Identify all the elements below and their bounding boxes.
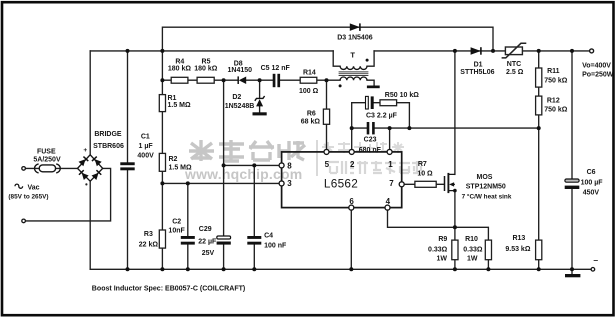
- svg-text:C5 12 nF: C5 12 nF: [261, 65, 291, 72]
- svg-text:25V: 25V: [202, 250, 215, 257]
- wire pin4 to sense resistors: [388, 210, 489, 240]
- svg-text:180 kΩ: 180 kΩ: [168, 65, 192, 72]
- svg-text:180 kΩ: 180 kΩ: [194, 65, 218, 72]
- svg-text:1 µF: 1 µF: [139, 143, 154, 150]
- resistor R5: [197, 77, 214, 83]
- transformer T primary winding: [340, 66, 367, 69]
- bridge minus dot: [85, 183, 87, 185]
- ground bar bottom right: [565, 274, 580, 277]
- output terminal plus: [590, 49, 594, 53]
- svg-text:R10: R10: [465, 236, 478, 243]
- node gnd C1: [126, 267, 130, 271]
- svg-text:750 kΩ: 750 kΩ: [544, 77, 568, 84]
- capacitor C29 polarized: [217, 236, 231, 245]
- svg-text:BRIDGE: BRIDGE: [94, 131, 122, 138]
- svg-text:22 µF: 22 µF: [198, 238, 217, 245]
- wire AC line2: bridge right loop to terminal 2: [25, 168, 110, 221]
- wire pin6 ground: [350, 210, 352, 269]
- bridge diode top-right: [92, 157, 102, 167]
- svg-text:R11: R11: [547, 68, 560, 75]
- svg-text:1W: 1W: [437, 256, 448, 263]
- pin 3: [279, 181, 284, 186]
- node ZCD tap: [325, 78, 329, 82]
- wire top rail with D3 bypass: [162, 27, 493, 51]
- svg-text:7: 7: [389, 179, 394, 188]
- svg-text:2: 2: [350, 160, 355, 169]
- node Vcc-pin8: [222, 163, 226, 167]
- node D2 tap: [258, 78, 262, 82]
- svg-text:2.5 Ω: 2.5 Ω: [506, 69, 524, 76]
- node R4 tap: [160, 78, 164, 82]
- ground bar under D2: [253, 112, 267, 115]
- node gnd R10: [486, 267, 490, 271]
- svg-text:5A/250V: 5A/250V: [33, 157, 61, 164]
- svg-text:C6: C6: [587, 169, 596, 176]
- node gnd C4: [252, 267, 256, 271]
- node inv-pin1: [388, 126, 392, 130]
- wire Vcc vertical from D8 junction through C29 to ground: [223, 80, 225, 269]
- wire R9 verticals: [454, 227, 456, 269]
- pin 4: [385, 205, 390, 210]
- node gnd R9: [453, 267, 457, 271]
- node C1-top: [126, 49, 130, 53]
- AC terminal 2: [22, 219, 26, 223]
- transistor Q1 MOS STP12NM50: [445, 173, 455, 193]
- wire transformer primary riser right: [367, 51, 374, 66]
- phase dot primary: [366, 59, 369, 62]
- svg-text:100 Ω: 100 Ω: [299, 88, 319, 95]
- junction dots top rails: [126, 49, 575, 271]
- wire R11 R12 divider: [538, 51, 540, 128]
- svg-text:Vac: Vac: [28, 185, 40, 192]
- capacitor C4: [247, 236, 261, 245]
- svg-text:R12: R12: [547, 97, 560, 104]
- svg-text:NTC: NTC: [507, 61, 521, 68]
- node gnd pin6: [349, 267, 353, 271]
- MOS body-source junction dot: [453, 189, 457, 193]
- svg-text:1.5 MΩ: 1.5 MΩ: [168, 102, 192, 109]
- svg-text:100 nF: 100 nF: [264, 242, 287, 249]
- resistor R6: [323, 109, 329, 124]
- svg-text:R13: R13: [512, 235, 525, 242]
- svg-text:R14: R14: [303, 70, 316, 77]
- pin 5: [324, 149, 329, 154]
- pin 2: [349, 149, 354, 154]
- ground bar under secondary: [367, 86, 380, 89]
- svg-text:MOS: MOS: [477, 174, 493, 181]
- wire R6 branch to pin5: [326, 80, 328, 149]
- op-amp U1 L6562 box: [282, 152, 402, 208]
- wire D2 branch vertical: [259, 80, 261, 112]
- wire ground stub bottom right: [571, 269, 573, 274]
- wire Vcc to pin8: [224, 164, 279, 166]
- node R2R3-pin3: [160, 181, 164, 185]
- wire secondary right to ground: [367, 80, 374, 85]
- pin 7: [399, 182, 404, 187]
- svg-text:750 kΩ: 750 kΩ: [544, 106, 568, 113]
- wire R10 bottom: [487, 260, 489, 270]
- wire divider to pin3: [162, 182, 279, 184]
- wire bridge top to rail: [89, 51, 91, 155]
- svg-text:680 nF: 680 nF: [359, 147, 382, 154]
- svg-text:R9: R9: [438, 236, 447, 243]
- output terminal minus: [591, 268, 595, 272]
- resistor R11: [536, 68, 542, 87]
- bridge diode bottom-right: [92, 170, 102, 180]
- svg-text:C23: C23: [364, 137, 377, 144]
- svg-text:C1: C1: [141, 134, 150, 141]
- svg-text:1W: 1W: [467, 256, 478, 263]
- AC terminal 1: [22, 167, 26, 171]
- svg-text:9.53 kΩ: 9.53 kΩ: [505, 246, 530, 253]
- watermark glyphs dark row: [189, 140, 305, 161]
- capacitor C23: [367, 122, 375, 134]
- svg-text:FUSE: FUSE: [37, 149, 56, 156]
- node C4-Vcc: [252, 163, 256, 167]
- svg-text:C4: C4: [264, 233, 273, 240]
- svg-text:8: 8: [287, 162, 292, 171]
- capacitor C3: [366, 96, 374, 109]
- pin 1: [387, 149, 392, 154]
- svg-text:C2: C2: [172, 219, 181, 226]
- wire pin1 vertical: [389, 128, 391, 149]
- node gnd C2: [186, 267, 190, 271]
- node D1-cathode-rail: [491, 49, 495, 53]
- fuse F1: [34, 164, 60, 173]
- zener D2: [255, 96, 265, 106]
- label Vac sine: [15, 184, 23, 188]
- wire MOS source vertical: [454, 191, 456, 228]
- resistor R12: [536, 96, 542, 115]
- wire comp feedback line with C23: [352, 127, 539, 129]
- node riser-top-rail: [160, 49, 164, 53]
- resistor R3: [159, 230, 165, 248]
- svg-text:6: 6: [349, 197, 354, 206]
- svg-text:–: –: [593, 255, 598, 265]
- node gnd R13: [537, 267, 541, 271]
- watermark light row2: [328, 161, 423, 174]
- svg-text:R6: R6: [307, 111, 316, 118]
- svg-text:D2: D2: [232, 94, 241, 101]
- wire rectified bus rail: [90, 50, 589, 52]
- node gnd C6: [570, 267, 574, 271]
- svg-text:Vo=400V: Vo=400V: [582, 62, 611, 69]
- diode D1: [471, 47, 481, 55]
- wire C1 vertical: [127, 51, 129, 269]
- capacitor C2: [181, 236, 195, 245]
- phase dot secondary: [339, 84, 342, 87]
- resistor R4: [171, 77, 188, 83]
- resistor R1: [159, 95, 165, 112]
- wire AC line1: terminal to fuse to bridge left: [25, 167, 77, 169]
- resistor R50: [380, 100, 397, 106]
- resistor R10: [485, 240, 491, 260]
- svg-text:0.33Ω: 0.33Ω: [463, 246, 483, 253]
- svg-text:10 Ω: 10 Ω: [417, 171, 433, 178]
- resistor R14: [300, 77, 317, 83]
- wire startup row R4 R5 D8 C5 R14: [162, 79, 340, 81]
- svg-text:R2: R2: [169, 156, 178, 163]
- svg-text:R50 10 kΩ: R50 10 kΩ: [385, 92, 419, 99]
- svg-text:Boost Inductor Spec: EB0057-C: Boost Inductor Spec: EB0057-C (COILCRAFT…: [92, 285, 245, 292]
- capacitor C5: [273, 74, 280, 87]
- svg-text:22 kΩ: 22 kΩ: [139, 241, 159, 248]
- wire R1-R2-R3 chain vertical: [161, 51, 163, 269]
- watermark divider: [316, 140, 318, 176]
- node C3R50 right: [407, 126, 411, 130]
- svg-text:D1: D1: [474, 62, 483, 69]
- wire output rail right of transformer handled above; wire bottom ground rail: [90, 268, 591, 270]
- node drain-rail: [453, 49, 457, 53]
- wire bridge bottom to ground rail: [89, 181, 91, 269]
- svg-text:3: 3: [287, 179, 292, 188]
- svg-text:STTH5L06: STTH5L06: [460, 69, 494, 76]
- node divider-mid: [537, 126, 541, 130]
- bridge diode bottom-left: [79, 170, 89, 180]
- bridge rectifier STBR606 diamond: [78, 155, 103, 181]
- wire MOS drain vertical: [454, 51, 456, 174]
- resistor R13: [536, 240, 542, 260]
- svg-text:7 °C/W heat sink: 7 °C/W heat sink: [462, 192, 512, 200]
- capacitor C1: [120, 162, 134, 170]
- svg-text:5: 5: [325, 160, 330, 169]
- diode D3: [350, 23, 360, 31]
- diode D8: [238, 76, 246, 84]
- wire zcd C3 R50 loop: [352, 103, 410, 128]
- svg-text:1.5 MΩ: 1.5 MΩ: [169, 165, 193, 172]
- node gnd C29: [222, 267, 226, 271]
- wire pin7 to R7 to gate: [404, 183, 444, 185]
- svg-text:D3 1N5406: D3 1N5406: [337, 35, 373, 42]
- node C2-pin3: [186, 181, 190, 185]
- svg-text:R3: R3: [144, 231, 153, 238]
- node CS-source: [453, 225, 457, 229]
- transformer T secondary winding: [340, 77, 367, 80]
- resistor R2: [159, 153, 165, 171]
- transformer T core: [339, 72, 369, 76]
- node gnd R3: [160, 267, 164, 271]
- svg-text:4: 4: [386, 197, 391, 206]
- svg-text:1: 1: [388, 160, 393, 169]
- svg-text:10nF: 10nF: [168, 227, 185, 234]
- svg-text:C3 2.2 µF: C3 2.2 µF: [366, 112, 398, 119]
- wire pin2 vertical: [351, 103, 353, 150]
- svg-text:C29: C29: [199, 226, 212, 233]
- NTC thermistor: [502, 43, 527, 58]
- svg-text:450V: 450V: [583, 190, 600, 197]
- svg-text:100 µF: 100 µF: [581, 179, 604, 186]
- wire C2 vertical: [187, 183, 189, 269]
- svg-text:STP12NM50: STP12NM50: [466, 183, 506, 190]
- svg-text:R4: R4: [175, 58, 184, 65]
- svg-text:1N5248B: 1N5248B: [225, 103, 255, 110]
- capacitor C6 polarized: [565, 179, 580, 189]
- resistor R9: [452, 240, 458, 260]
- svg-text:1N4150: 1N4150: [228, 67, 253, 74]
- svg-text:(85V to 265V): (85V to 265V): [8, 194, 48, 201]
- wire R13 vertical: [538, 128, 540, 269]
- svg-text:T: T: [350, 51, 355, 60]
- svg-text:400V: 400V: [137, 152, 154, 159]
- bridge diode top-left: [79, 157, 89, 167]
- node D8-Vcc tap: [222, 78, 226, 82]
- node R11-rail: [537, 49, 541, 53]
- svg-text:68 kΩ: 68 kΩ: [301, 118, 321, 125]
- svg-text:0.33Ω: 0.33Ω: [428, 246, 448, 253]
- svg-text:R5: R5: [202, 58, 211, 65]
- wire C6 vertical: [571, 51, 573, 269]
- svg-text:R7: R7: [418, 161, 427, 168]
- resistor R7: [415, 181, 436, 187]
- watermark light row1: [322, 142, 404, 153]
- svg-text:L6562: L6562: [324, 177, 358, 191]
- wire transformer primary riser left: [333, 51, 340, 66]
- svg-text:Po=250W: Po=250W: [582, 72, 614, 79]
- node C6-rail: [570, 49, 574, 53]
- pin 6: [349, 205, 354, 210]
- pin 8: [279, 163, 284, 168]
- node comp-pin2: [350, 126, 354, 130]
- svg-text:STBR606: STBR606: [93, 143, 124, 150]
- wire C4 vertical: [253, 165, 255, 269]
